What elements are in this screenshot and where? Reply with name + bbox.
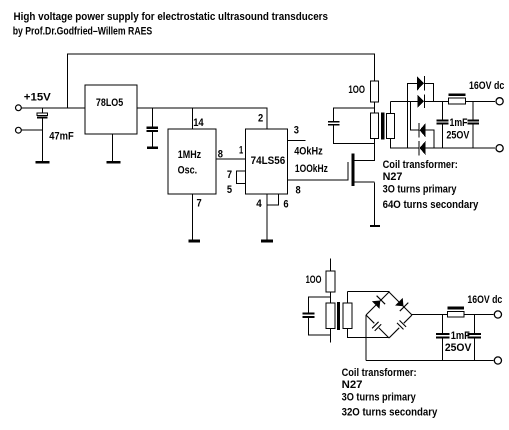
note coil transformer bottom bbox=[342, 367, 438, 418]
svg-text:1OO: 1OO bbox=[348, 84, 365, 96]
diode D1 bbox=[408, 76, 435, 102]
svg-text:1MHz: 1MHz bbox=[178, 149, 202, 161]
svg-text:1mF: 1mF bbox=[451, 330, 470, 342]
wire U3 pin 6 strap to pin 4 bbox=[267, 194, 280, 206]
wire bridge left vertex down bbox=[366, 315, 367, 361]
terminal output positive bbox=[496, 98, 503, 105]
wire R1 to transformer primary bbox=[374, 102, 375, 114]
wire 5V rail bbox=[137, 107, 267, 108]
diode D5 bridge top left bbox=[366, 292, 389, 315]
wire bottom rail bbox=[366, 360, 494, 361]
ground under C1 bbox=[36, 161, 50, 163]
svg-text:14: 14 bbox=[193, 117, 204, 129]
capacitor C6 series output bbox=[449, 94, 496, 104]
terminal output negative bbox=[496, 145, 503, 152]
wire T2 primary stub bbox=[330, 329, 331, 343]
capacitor C7 snubber bbox=[303, 297, 331, 336]
wire bus to resistor R1 bbox=[374, 54, 375, 82]
svg-text:3O turns primary: 3O turns primary bbox=[383, 184, 458, 196]
svg-text:25OV: 25OV bbox=[445, 342, 472, 354]
wire U3 pins 7 and 5 strap bbox=[236, 170, 245, 184]
capacitor C12 series output bbox=[448, 307, 494, 317]
svg-text:8: 8 bbox=[218, 149, 223, 161]
IC U3 74LS56 bbox=[245, 129, 287, 194]
note coil transformer top bbox=[383, 159, 480, 211]
capacitor C8 bridge bottom left bbox=[366, 315, 389, 338]
wire U2 pin 8 to U3 pin 1 bbox=[216, 158, 245, 159]
terminal 0V input bbox=[16, 127, 22, 133]
ground under C2 bbox=[147, 147, 158, 150]
ground under U1 bbox=[107, 161, 121, 163]
diode D4 bbox=[418, 141, 495, 156]
wire bridge right vertex to output bbox=[412, 314, 448, 315]
svg-text:Coil transformer:: Coil transformer: bbox=[383, 159, 458, 171]
svg-text:25OV: 25OV bbox=[446, 130, 470, 142]
wire U2 pin 7 to ground bbox=[192, 194, 193, 240]
wire U3 pin 2 supply bbox=[267, 107, 268, 129]
wire node B vertical bbox=[410, 101, 411, 131]
wire top bus bbox=[67, 54, 375, 108]
transformer T1 bbox=[371, 112, 395, 139]
svg-text:N27: N27 bbox=[383, 171, 403, 183]
capacitor C2 decoupling bbox=[146, 107, 158, 146]
capacitor C10 bbox=[436, 314, 450, 361]
svg-text:7: 7 bbox=[197, 197, 202, 209]
svg-text:5: 5 bbox=[227, 184, 232, 196]
capacitor C4 bbox=[437, 101, 449, 148]
wire T1 secondary bottom bbox=[390, 139, 419, 149]
svg-text:47mF: 47mF bbox=[49, 130, 74, 142]
svg-text:by Prof.Dr.Godfried–Willem RAE: by Prof.Dr.Godfried–Willem RAES bbox=[13, 26, 153, 38]
svg-text:Osc.: Osc. bbox=[178, 165, 198, 177]
svg-text:4: 4 bbox=[256, 198, 262, 210]
terminal output positive bottom bbox=[494, 311, 501, 318]
svg-text:74LS56: 74LS56 bbox=[251, 155, 286, 167]
wire T2 secondary bottom to bridge bbox=[347, 329, 389, 339]
capacitor C11 bbox=[467, 314, 481, 361]
capacitor C3 snubber bbox=[328, 107, 375, 144]
wire U3 pin 4 to ground bbox=[267, 194, 268, 240]
wire input to regulator bbox=[22, 107, 85, 108]
wire 0V terminal to capacitor C1 bbox=[22, 130, 43, 131]
wire U3 pin 3 stub bbox=[288, 140, 306, 141]
transistor Q1 MOSFET bbox=[347, 139, 375, 226]
svg-text:64O turns secondary: 64O turns secondary bbox=[383, 199, 480, 211]
svg-text:High voltage power supply for: High voltage power supply for electrosta… bbox=[14, 11, 329, 23]
svg-text:1OO: 1OO bbox=[306, 274, 322, 286]
wire U2 pin 14 supply bbox=[192, 107, 193, 129]
diode D2 bbox=[417, 95, 448, 108]
svg-text:1OOkHz: 1OOkHz bbox=[295, 163, 328, 175]
svg-text:N27: N27 bbox=[342, 379, 363, 391]
diode D3 bbox=[410, 123, 435, 149]
wire T2 secondary top to bridge bbox=[347, 291, 389, 303]
wire node A vertical bbox=[407, 83, 408, 149]
svg-text:1mF: 1mF bbox=[450, 117, 468, 129]
ground under U2 bbox=[188, 240, 200, 243]
svg-text:3O turns primary: 3O turns primary bbox=[342, 391, 417, 403]
svg-text:32O turns secondary: 32O turns secondary bbox=[342, 407, 438, 419]
svg-text:+15V: +15V bbox=[24, 92, 52, 104]
svg-text:7: 7 bbox=[227, 169, 232, 181]
svg-text:2: 2 bbox=[258, 112, 263, 124]
ground under Q1 bbox=[370, 225, 380, 227]
diode D6 bridge top right bbox=[389, 292, 412, 315]
svg-text:78LO5: 78LO5 bbox=[96, 97, 123, 109]
capacitor C1 47mF bbox=[37, 107, 48, 161]
ground under U3 bbox=[261, 240, 273, 243]
capacitor C5 bbox=[467, 101, 478, 148]
transformer T2 bbox=[326, 302, 352, 330]
svg-text:4OkHz: 4OkHz bbox=[294, 146, 323, 158]
svg-text:6: 6 bbox=[283, 198, 288, 210]
wire T1 secondary top bbox=[390, 101, 418, 114]
svg-text:1: 1 bbox=[239, 145, 243, 157]
oscillator U2 1MHz bbox=[168, 129, 216, 194]
terminal output negative bottom bbox=[494, 357, 501, 364]
resistor R1 bbox=[371, 81, 379, 102]
svg-text:16OV dc: 16OV dc bbox=[469, 80, 504, 92]
svg-text:3: 3 bbox=[294, 125, 299, 137]
regulator U1 78L05 bbox=[85, 85, 137, 134]
wire U1 ground pin bbox=[112, 134, 113, 161]
terminal +15V input bbox=[16, 105, 22, 111]
wire R2 to transformer T2 bbox=[330, 292, 331, 303]
wire input stub bottom circuit bbox=[330, 258, 331, 271]
capacitor C9 bridge bottom right bbox=[389, 315, 412, 338]
resistor R2 bbox=[326, 271, 335, 292]
svg-text:Coil transformer:: Coil transformer: bbox=[342, 367, 417, 379]
wire U3 pin 8 to gate of Q1 bbox=[288, 180, 348, 181]
svg-text:16OV dc: 16OV dc bbox=[467, 294, 502, 306]
svg-text:8: 8 bbox=[296, 184, 301, 196]
